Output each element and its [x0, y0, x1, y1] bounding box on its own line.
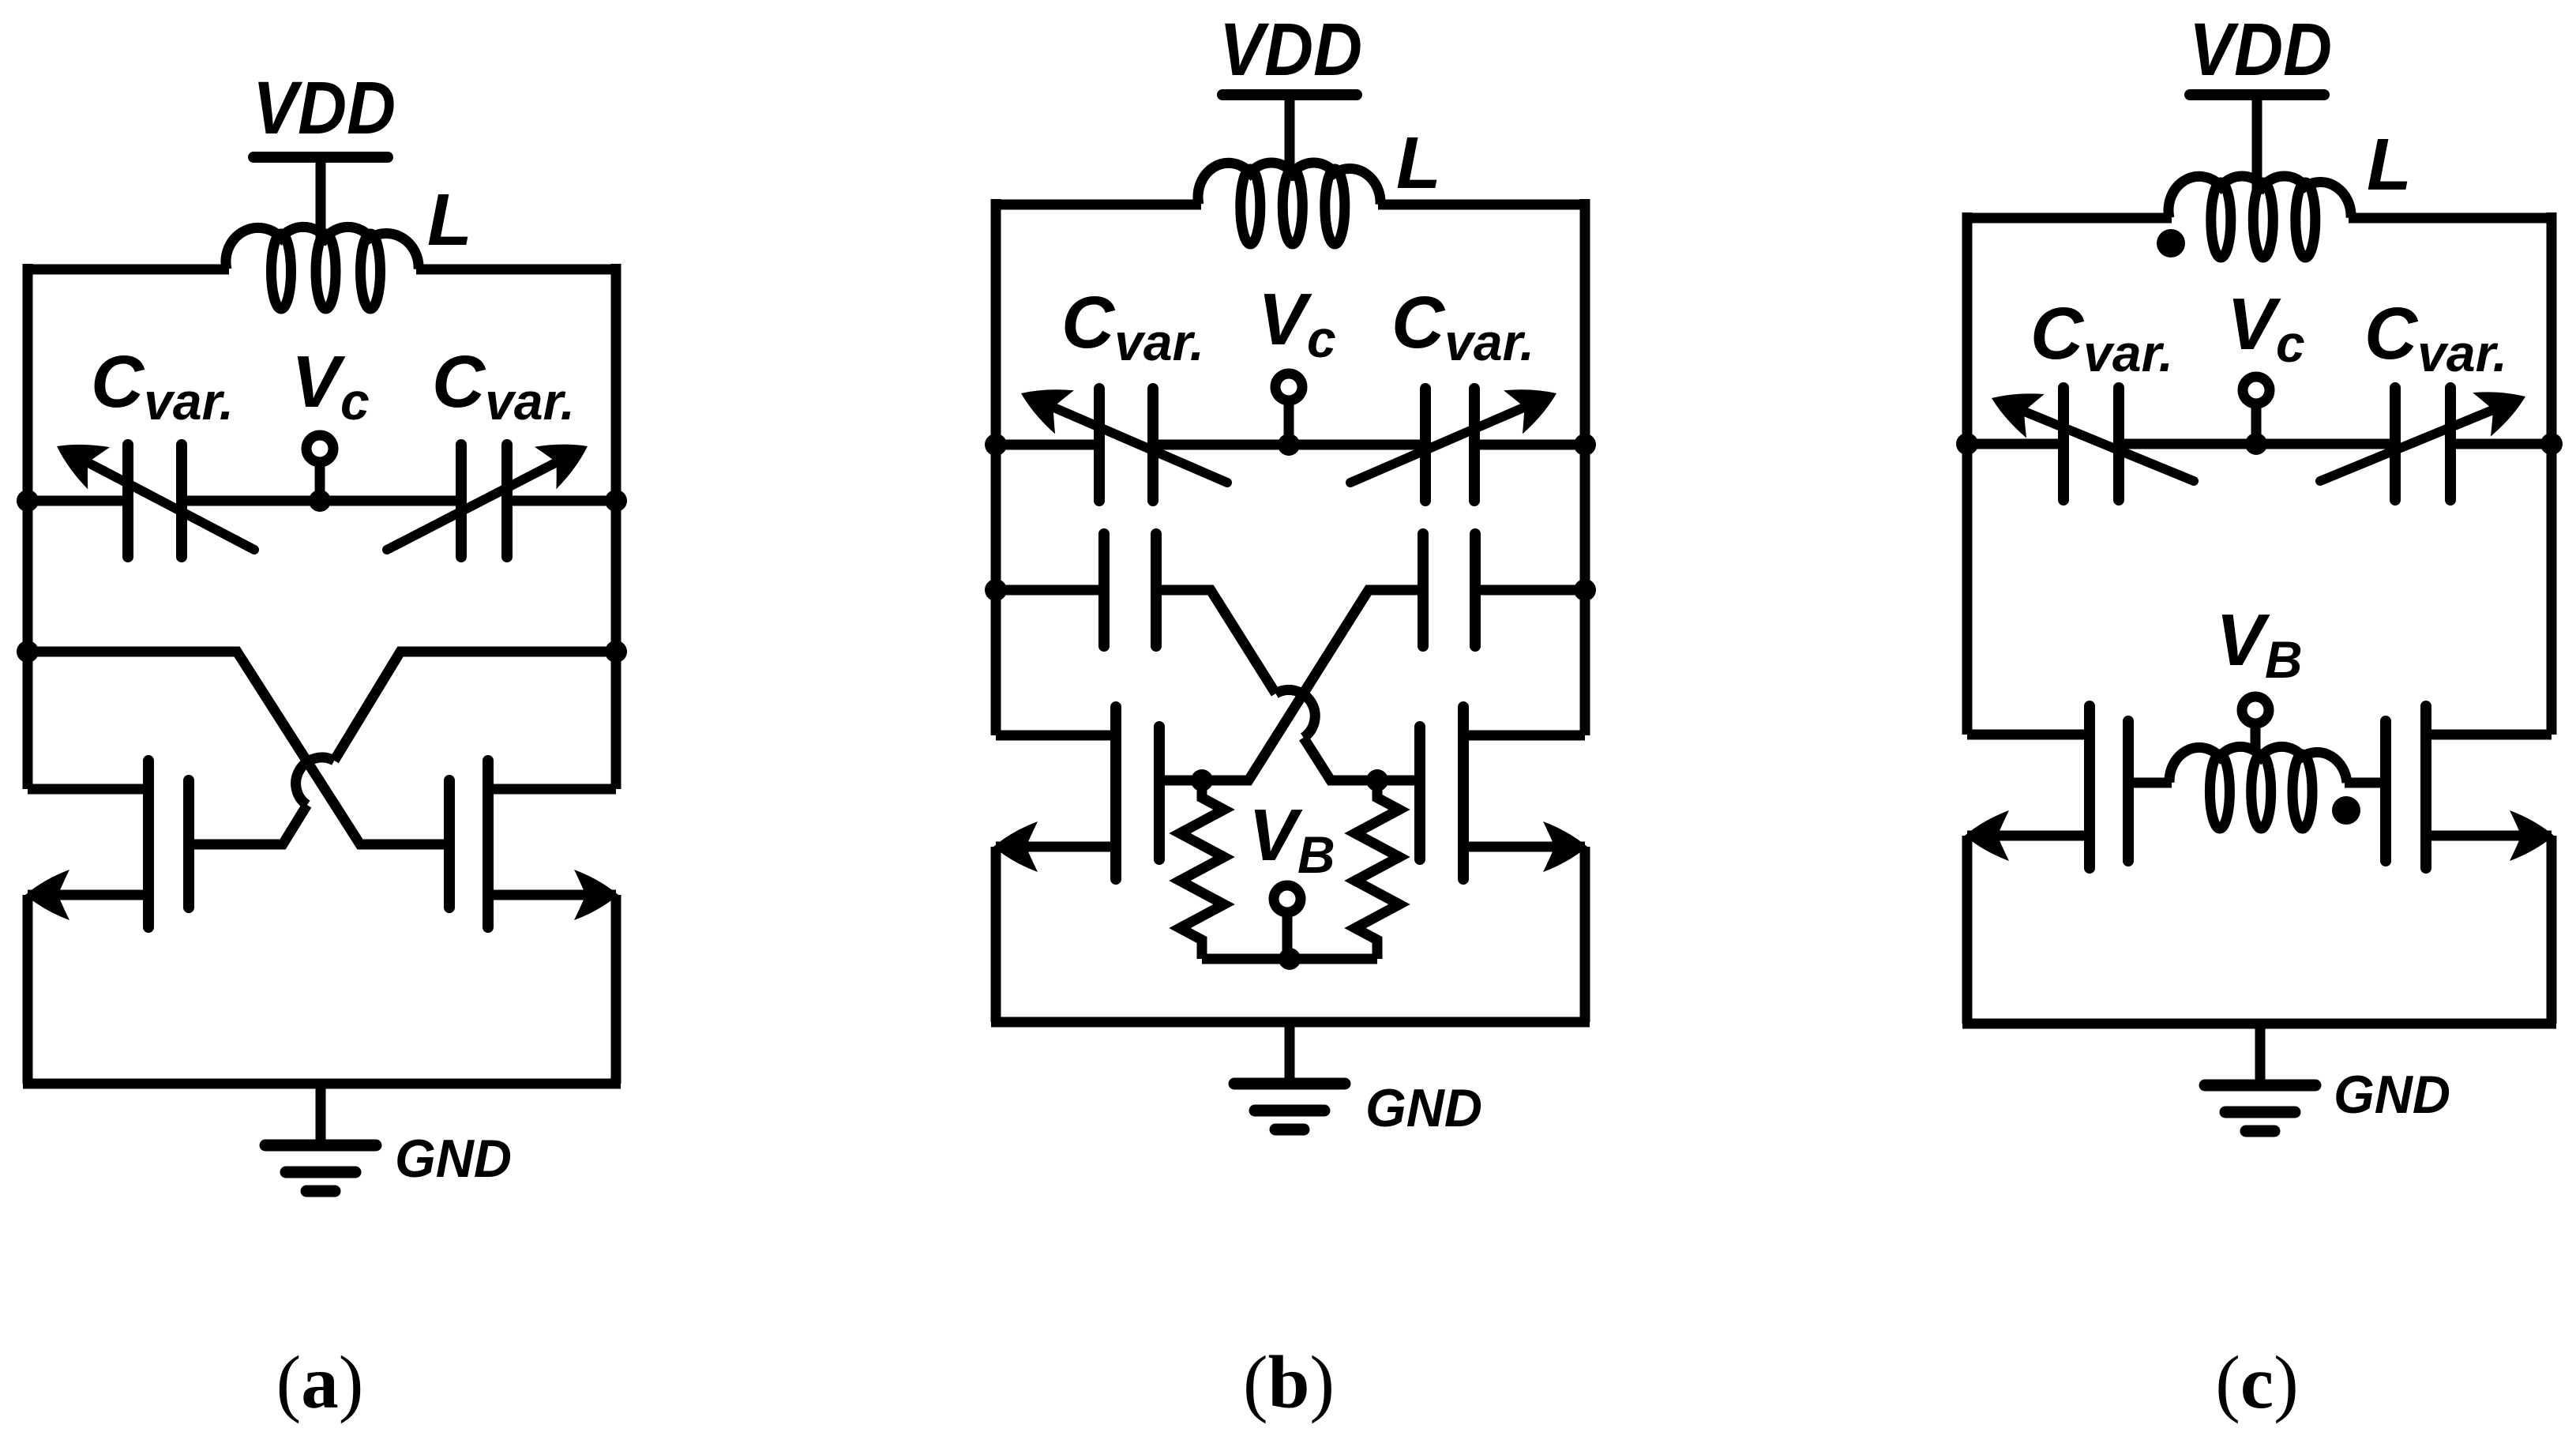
transistor gate bar M6 (c)	[2380, 721, 2391, 861]
transistor M3 (b)	[993, 707, 1159, 879]
ground symbol (c)	[2205, 1085, 2315, 1131]
wire cap row far-right (b)	[1475, 585, 1585, 596]
node varactor row left (c)	[1956, 433, 1978, 455]
svg-text:(b): (b)	[1243, 1340, 1335, 1424]
node varactor row right (c)	[2540, 433, 2563, 455]
wire source M4 (b)	[1463, 842, 1585, 852]
phase dot secondary (c)	[2332, 796, 2360, 825]
wire source M3 (b)	[996, 842, 1116, 852]
wire bottom rail (b)	[991, 1017, 1590, 1028]
transistor channel bar M6 (c)	[2420, 706, 2431, 868]
wire right source rail (b)	[1580, 847, 1590, 1022]
wire top right (a)	[416, 265, 616, 275]
source arrow M5 (c)	[1965, 810, 2009, 861]
node gate left (b)	[1191, 769, 1213, 791]
resistor R2 (b)	[1355, 780, 1399, 959]
svg-text:Vc: Vc	[2227, 283, 2305, 373]
wire source M6 (c)	[2426, 831, 2552, 841]
wire Vc stem (b)	[1284, 400, 1294, 445]
node VB junction (b)	[1279, 948, 1301, 970]
wire drain M3 (b)	[996, 731, 1116, 741]
power symbol VDD bar (c)	[2190, 89, 2324, 100]
svg-text:Cvar.: Cvar.	[432, 340, 575, 430]
wire top left (a)	[28, 265, 229, 275]
wire left source rail (b)	[991, 847, 1001, 1022]
svg-text:L: L	[1396, 122, 1441, 204]
node varactor row right (a)	[605, 490, 627, 512]
node varactor row right (b)	[1574, 434, 1596, 456]
wire hop (a)	[296, 757, 335, 805]
wire varactor row mid (b)	[1153, 440, 1425, 450]
varactor C7 arrow (c)	[1992, 393, 2194, 481]
wire drain M4 (b)	[1463, 731, 1585, 741]
wire GND stem (b)	[1285, 1022, 1295, 1084]
inductor L3 primary (c)	[2169, 176, 2351, 257]
wire hop-to-gate right (b)	[1304, 738, 1420, 780]
wire gate stub right (c)	[2345, 778, 2386, 788]
node Vc junction (b)	[1278, 434, 1300, 456]
circuit (a): NMOS cross-coupled LC-VCO	[17, 66, 627, 1424]
ground symbol (b)	[1234, 1084, 1345, 1129]
transistor M2 (a)	[449, 761, 618, 927]
wire left source rail (c)	[1962, 836, 1973, 1024]
transistor gate bar M5 (c)	[2123, 721, 2134, 861]
wire drain M2 (a)	[488, 784, 616, 795]
svg-text:VDD: VDD	[2189, 8, 2332, 92]
svg-text:L: L	[427, 179, 472, 261]
svg-text:Cvar.: Cvar.	[1391, 281, 1534, 371]
wire source M2 (a)	[488, 890, 616, 900]
node varactor row left (b)	[985, 434, 1007, 456]
transistor channel bar M1 (a)	[143, 761, 154, 927]
source arrow M2 (a)	[574, 870, 618, 920]
wire top right (b)	[1378, 200, 1585, 210]
node Vc junction (a)	[309, 490, 331, 512]
wire bottom rail (c)	[1962, 1019, 2556, 1029]
wire drain M1 (a)	[28, 784, 148, 795]
wire top left (b)	[996, 200, 1201, 210]
transistor gate bar M2 (a)	[444, 780, 455, 908]
wire right rail (b)	[1580, 199, 1590, 735]
inductor L1 (a)	[226, 227, 419, 309]
varactor C3 plates (b)	[1094, 389, 1105, 501]
wire drain-to-hop right (a)	[334, 652, 616, 761]
wire varactor row right (c)	[2450, 439, 2552, 449]
svg-text:Cvar.: Cvar.	[2030, 292, 2173, 382]
svg-text:GND: GND	[395, 1129, 512, 1189]
transistor M4 (b)	[1420, 707, 1587, 879]
wire VB stem (c)	[2251, 724, 2261, 752]
wire GND stem (c)	[2255, 1024, 2266, 1085]
inductor L2 (b)	[1198, 163, 1380, 244]
wire source M5 (c)	[1967, 831, 2090, 841]
svg-text:(a): (a)	[276, 1340, 364, 1424]
resistor R1 (b)	[1180, 780, 1224, 959]
wire hop-to-gate left (a)	[189, 805, 307, 844]
node cap row right (b)	[1574, 579, 1596, 601]
transistor M5 (c)	[1965, 706, 2128, 868]
svg-text:Vc: Vc	[291, 340, 370, 430]
wire VDD stem (a)	[316, 157, 326, 246]
source arrow M3 (b)	[993, 821, 1038, 872]
wire source M1 (a)	[28, 890, 148, 900]
svg-text:Cvar.: Cvar.	[2364, 292, 2507, 382]
wire right rail (a)	[611, 264, 621, 789]
node Vc junction (c)	[2245, 433, 2267, 455]
wire Vc stem (c)	[2251, 404, 2262, 444]
wire left rail (a)	[23, 264, 33, 789]
node drain right (a)	[605, 641, 627, 663]
svg-text:GND: GND	[2334, 1065, 2450, 1125]
svg-text:(c): (c)	[2215, 1340, 2298, 1424]
wire varactor row right (a)	[507, 496, 616, 506]
svg-text:Cvar.: Cvar.	[91, 340, 234, 430]
capacitor C5 (b)	[1098, 534, 1110, 646]
transistor channel bar M3 (b)	[1110, 707, 1121, 879]
svg-text:Vc: Vc	[1258, 278, 1336, 368]
terminal Vc (c)	[2243, 377, 2270, 404]
varactor C3 arrow (b)	[1021, 389, 1227, 483]
wire drain-to-gate left-to-right (a)	[28, 652, 449, 844]
wire GND stem (a)	[316, 1084, 326, 1145]
wire VDD stem (b)	[1285, 95, 1295, 181]
wire VDD stem (c)	[2252, 95, 2262, 194]
wire gate stub left (c)	[2128, 778, 2172, 788]
wire left source rail (a)	[23, 895, 33, 1084]
wire varactor row left (a)	[28, 496, 128, 506]
node gate right (b)	[1366, 769, 1388, 791]
svg-text:VB: VB	[2216, 599, 2303, 689]
wire varactor row left (b)	[996, 440, 1099, 450]
varactor C8 plates (c)	[2390, 388, 2401, 500]
varactor C2 arrow (a)	[387, 445, 588, 550]
terminal VB (b)	[1274, 885, 1301, 912]
wire drain M5 (c)	[1967, 730, 2090, 740]
svg-text:Cvar.: Cvar.	[1061, 281, 1204, 371]
power symbol VDD bar (b)	[1222, 89, 1357, 100]
transistor channel bar M4 (b)	[1458, 707, 1469, 879]
terminal Vc (b)	[1275, 374, 1302, 400]
wire varactor row left (c)	[1967, 439, 2063, 449]
capacitor C6 (b)	[1418, 534, 1429, 646]
wire VB stem (b)	[1282, 912, 1293, 959]
wire Vc stem (a)	[315, 462, 325, 501]
terminal Vc (a)	[306, 435, 333, 462]
transistor M6 (c)	[2386, 706, 2554, 868]
svg-text:L: L	[2367, 123, 2412, 205]
ground symbol (a)	[265, 1145, 376, 1191]
svg-text:VB: VB	[1249, 794, 1335, 884]
wire varactor row mid (a)	[182, 496, 461, 506]
wire left rail (c)	[1962, 212, 1973, 735]
transistor gate bar M4 (b)	[1414, 727, 1425, 859]
varactor C8 arrow (c)	[2320, 392, 2525, 481]
circuit (b): LC-VCO with DC-blocking caps and bias resistors	[985, 8, 1596, 1424]
wire top right (c)	[2349, 213, 2552, 224]
node cap row left (b)	[985, 579, 1007, 601]
wire hop (b)	[1275, 690, 1315, 737]
wire varactor row right (b)	[1474, 440, 1585, 450]
varactor C1 arrow (a)	[57, 445, 254, 550]
node varactor row left (a)	[17, 490, 39, 512]
source arrow M1 (a)	[25, 870, 69, 920]
inductor L4 secondary (c)	[2169, 746, 2347, 829]
transistor channel bar M2 (a)	[483, 761, 494, 927]
wire right rail (c)	[2547, 212, 2557, 735]
wire resistor bottom (b)	[1202, 954, 1377, 964]
circuit (c): transformer-feedback LC-VCO	[1956, 8, 2563, 1424]
wire cap row far-left (b)	[996, 585, 1104, 596]
wire left rail (b)	[991, 199, 1001, 735]
varactor C4 arrow (b)	[1350, 389, 1556, 483]
wire top left (c)	[1967, 213, 2172, 224]
varactor C7 plates (c)	[2058, 388, 2069, 500]
svg-text:GND: GND	[1365, 1078, 1482, 1138]
phase dot primary (c)	[2157, 229, 2185, 257]
source arrow M4 (b)	[1543, 821, 1587, 872]
svg-text:VDD: VDD	[253, 66, 396, 150]
source arrow M6 (c)	[2510, 810, 2554, 861]
terminal VB (c)	[2242, 697, 2269, 724]
varactor C1 plates (a)	[122, 445, 133, 557]
transistor channel bar M5 (c)	[2084, 706, 2095, 868]
wire right source rail (c)	[2547, 836, 2557, 1024]
wire cap-to-hop left (b)	[1156, 590, 1275, 693]
wire varactor row mid (c)	[2119, 439, 2395, 449]
svg-text:VDD: VDD	[1219, 8, 1362, 92]
node drain left (a)	[17, 641, 39, 663]
wire cap-to-gate right-to-left (b)	[1159, 590, 1423, 780]
varactor C4 plates (b)	[1420, 389, 1431, 501]
power symbol VDD bar (a)	[253, 152, 388, 163]
transistor M1 (a)	[25, 761, 189, 927]
wire right source rail (a)	[611, 895, 621, 1084]
transistor gate bar M3 (b)	[1154, 727, 1165, 859]
wire drain M6 (c)	[2426, 730, 2552, 740]
varactor C2 plates (a)	[456, 445, 467, 557]
transistor gate bar M1 (a)	[183, 780, 194, 908]
wire bottom rail (a)	[23, 1079, 621, 1089]
